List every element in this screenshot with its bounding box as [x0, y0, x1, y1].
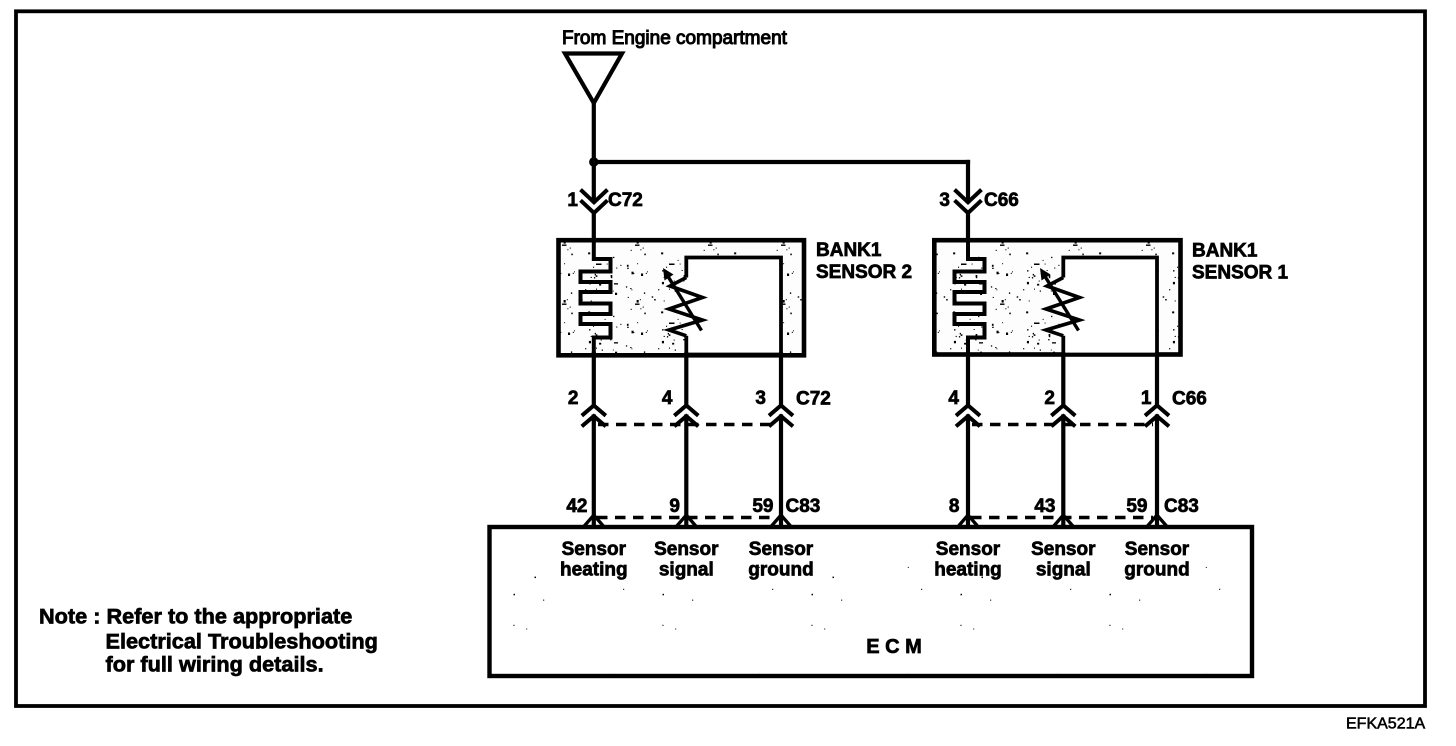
connector C72 pin 3 (chevrons) — [769, 405, 793, 415]
arrow of variable resistor sensor 1 — [1040, 268, 1079, 331]
dashed harness line at connector C83 left — [597, 516, 777, 520]
svg-text:Electrical Troubleshooting: Electrical Troubleshooting — [106, 629, 378, 654]
wire: horizontal from junction to sensor1 branch — [594, 160, 968, 164]
connector C66 pin 3 (inline, chevrons) — [956, 191, 980, 213]
svg-text:4: 4 — [662, 388, 673, 409]
svg-text:Note : Refer to the appropriat: Note : Refer to the appropriate — [39, 604, 352, 629]
connector: from engine compartment (triangle) — [565, 54, 622, 104]
svg-text:2: 2 — [568, 388, 579, 409]
svg-text:SENSOR 2: SENSOR 2 — [816, 262, 912, 283]
svg-text:Sensor: Sensor — [654, 539, 719, 560]
svg-text:3: 3 — [755, 388, 766, 409]
svg-text:ground: ground — [1124, 560, 1189, 581]
dashed harness line at connector C66 — [972, 423, 1153, 427]
connector C72 pin 4 (chevrons) — [674, 405, 698, 415]
wire: main feed vertical from triangle to junction — [592, 103, 596, 162]
wire: sensor2 pin2 heater to ECM 42 — [592, 354, 596, 406]
svg-text:From Engine compartment: From Engine compartment — [562, 28, 788, 49]
svg-text:C83: C83 — [786, 496, 821, 517]
wire: sensor1 pin1 ground to ECM 59 — [1155, 355, 1159, 407]
svg-text:3: 3 — [939, 190, 950, 211]
svg-text:Sensor: Sensor — [1031, 539, 1096, 560]
ECM pin 59 terminal caret right — [1148, 515, 1167, 526]
svg-text:1: 1 — [567, 190, 578, 211]
svg-text:Sensor: Sensor — [936, 539, 1001, 560]
svg-text:signal: signal — [1036, 560, 1091, 581]
ECM pin 9 terminal caret — [677, 515, 696, 526]
svg-text:C66: C66 — [984, 190, 1019, 211]
sensing cell inner box of sensor 2 — [686, 258, 781, 355]
ECM box — [490, 527, 1253, 676]
arrow of variable resistor sensor 2 — [663, 268, 702, 331]
svg-text:for full wiring details.: for full wiring details. — [106, 652, 324, 677]
variable resistor zigzag of sensor 1 — [1046, 278, 1080, 336]
svg-text:Sensor: Sensor — [562, 539, 627, 560]
svg-text:59: 59 — [1126, 496, 1147, 517]
wire: sensor1 pin2 signal to ECM 43 — [1061, 355, 1065, 407]
connector C72 pin 2 (chevrons) — [582, 405, 606, 415]
wire: sensor2 pin4 signal to ECM 9 — [684, 355, 688, 407]
connector C66 pin 4 (chevrons) — [956, 405, 980, 415]
svg-text:8: 8 — [949, 496, 960, 517]
svg-text:signal: signal — [659, 560, 714, 581]
ECM pin 59 terminal caret left — [772, 515, 791, 526]
wire: sensor1 pin4 heater to ECM 8 — [966, 354, 970, 406]
sensing cell inner box of sensor 1 — [1063, 258, 1157, 355]
svg-text:9: 9 — [669, 496, 680, 517]
dashed harness line at connector C83 right — [971, 516, 1153, 520]
connector C72 pin 1 (inline, chevrons) — [582, 191, 606, 213]
svg-text:EFKA521A: EFKA521A — [1346, 716, 1425, 733]
connector C66 pin 2 (chevrons) — [1051, 405, 1075, 415]
svg-text:ground: ground — [748, 560, 813, 581]
svg-text:C66: C66 — [1172, 389, 1207, 410]
svg-text:C72: C72 — [796, 389, 831, 410]
svg-text:SENSOR 1: SENSOR 1 — [1192, 263, 1289, 284]
svg-text:42: 42 — [566, 496, 587, 517]
svg-text:C83: C83 — [1164, 496, 1199, 517]
svg-text:BANK1: BANK1 — [816, 240, 882, 261]
svg-text:Sensor: Sensor — [1125, 539, 1190, 560]
sensor BANK1 SENSOR 1 box — [934, 240, 1180, 354]
svg-text:Sensor: Sensor — [749, 539, 814, 560]
dashed harness line at connector C72 — [598, 423, 777, 427]
svg-text:C72: C72 — [608, 190, 643, 211]
wire: sensor2 pin3 ground to ECM 59 — [779, 355, 783, 407]
connector C66 pin 1 (chevrons) — [1145, 405, 1169, 415]
wire: vertical from junction down to sensor2 box — [592, 162, 596, 201]
svg-text:4: 4 — [948, 388, 959, 409]
heater element of sensor 1 — [955, 240, 985, 356]
svg-text:heating: heating — [560, 560, 628, 581]
heater element of sensor 2 — [581, 240, 611, 356]
svg-text:1: 1 — [1141, 388, 1152, 409]
variable resistor zigzag of sensor 2 — [669, 278, 703, 336]
svg-text:heating: heating — [934, 560, 1002, 581]
svg-text:BANK1: BANK1 — [1192, 241, 1258, 262]
svg-text:E C M: E C M — [866, 636, 922, 658]
sensor BANK1 SENSOR 2 box — [559, 240, 805, 355]
ECM pin 42 terminal caret — [584, 515, 603, 526]
svg-text:59: 59 — [752, 496, 773, 517]
junction node — [589, 157, 598, 166]
ECM pin 8 terminal caret — [959, 515, 978, 526]
ECM pin 43 terminal caret — [1054, 515, 1073, 526]
svg-text:43: 43 — [1034, 496, 1055, 517]
wire: vertical branch down to sensor1 box — [966, 162, 970, 201]
svg-text:2: 2 — [1044, 388, 1055, 409]
